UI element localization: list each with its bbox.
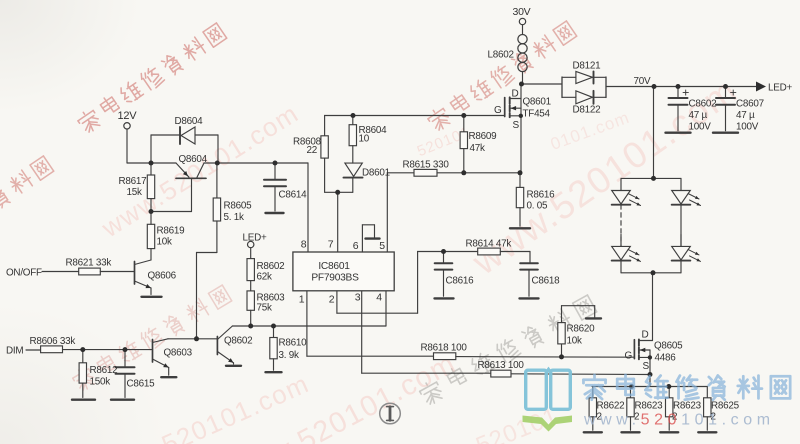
svg-text:520101: 520101 xyxy=(472,402,562,444)
svg-text:8: 8 xyxy=(301,239,307,251)
svg-text:D8121: D8121 xyxy=(573,61,602,72)
svg-text:R8615 330: R8615 330 xyxy=(403,160,450,171)
svg-text:L8602: L8602 xyxy=(488,50,514,61)
svg-text:75k: 75k xyxy=(257,303,272,314)
svg-text:R8618 100: R8618 100 xyxy=(421,343,468,354)
svg-text:Q8602: Q8602 xyxy=(224,336,252,347)
svg-text:R8620: R8620 xyxy=(567,324,596,335)
svg-text:IC8601: IC8601 xyxy=(318,261,350,272)
svg-text:G: G xyxy=(494,105,502,116)
svg-text:R8619: R8619 xyxy=(157,226,186,237)
svg-text:100V: 100V xyxy=(689,122,712,133)
svg-text:22: 22 xyxy=(307,145,317,156)
svg-text:R8623: R8623 xyxy=(635,401,664,412)
svg-text:R8605: R8605 xyxy=(224,201,253,212)
svg-text:Q8606: Q8606 xyxy=(148,271,177,282)
svg-text:C8618: C8618 xyxy=(532,276,561,287)
svg-text:R8623: R8623 xyxy=(673,401,702,412)
svg-text:R8610: R8610 xyxy=(279,338,308,349)
svg-text:S: S xyxy=(513,120,520,131)
svg-text:3. 9k: 3. 9k xyxy=(279,350,299,361)
svg-text:30V: 30V xyxy=(513,6,531,18)
svg-text:LED+: LED+ xyxy=(768,83,792,94)
svg-text:S: S xyxy=(643,361,650,372)
svg-text:C8616: C8616 xyxy=(446,276,475,287)
svg-text:DIM: DIM xyxy=(6,346,23,357)
svg-text:D: D xyxy=(512,89,519,100)
svg-text:R8622: R8622 xyxy=(597,401,625,412)
svg-text:Q8605: Q8605 xyxy=(654,341,683,352)
svg-text:10k: 10k xyxy=(157,237,172,248)
svg-text:150k: 150k xyxy=(90,377,111,388)
svg-text:62k: 62k xyxy=(257,272,272,283)
svg-text:6: 6 xyxy=(353,240,359,252)
svg-text:12V: 12V xyxy=(118,110,138,122)
svg-text:D8122: D8122 xyxy=(573,105,601,116)
svg-text:3: 3 xyxy=(355,292,361,304)
svg-text:ON/OFF: ON/OFF xyxy=(6,268,42,279)
svg-text:47k: 47k xyxy=(470,143,485,154)
svg-text:4: 4 xyxy=(376,292,382,304)
svg-text:2: 2 xyxy=(329,294,335,306)
svg-text:5: 5 xyxy=(379,240,385,252)
svg-text:LED+: LED+ xyxy=(243,233,267,244)
svg-text:0. 05: 0. 05 xyxy=(527,201,548,212)
svg-text:G: G xyxy=(625,351,633,362)
svg-text:R8609: R8609 xyxy=(469,131,498,142)
svg-text:R8606 33k: R8606 33k xyxy=(30,336,76,347)
svg-text:D8601: D8601 xyxy=(362,168,391,179)
svg-text:R8613 100: R8613 100 xyxy=(478,360,525,371)
svg-text:C8615: C8615 xyxy=(127,379,156,390)
svg-text:C8607: C8607 xyxy=(736,99,764,110)
svg-text:1: 1 xyxy=(299,294,305,306)
svg-text:R8602: R8602 xyxy=(257,261,285,272)
svg-text:TF454: TF454 xyxy=(523,109,551,120)
svg-text:100V: 100V xyxy=(736,122,759,133)
svg-text:D: D xyxy=(642,330,649,341)
svg-text:C8614: C8614 xyxy=(279,190,308,201)
svg-text:Q8604: Q8604 xyxy=(179,154,208,165)
svg-text:15k: 15k xyxy=(127,187,142,198)
svg-text:Q8603: Q8603 xyxy=(164,348,193,359)
svg-text:10k: 10k xyxy=(567,336,582,347)
svg-text:47 µ: 47 µ xyxy=(689,110,708,121)
svg-text:R8614 47k: R8614 47k xyxy=(466,239,512,250)
svg-text:www.520101.com: www.520101.com xyxy=(583,412,775,429)
svg-text:R8616: R8616 xyxy=(527,190,556,201)
svg-text:R8617: R8617 xyxy=(119,176,147,187)
svg-text:Q8601: Q8601 xyxy=(523,97,552,108)
svg-text:5. 1k: 5. 1k xyxy=(224,212,244,223)
svg-text:4486: 4486 xyxy=(655,353,677,364)
svg-text:7: 7 xyxy=(328,239,334,251)
svg-text:R8621 33k: R8621 33k xyxy=(66,258,112,269)
svg-text:47 µ: 47 µ xyxy=(736,110,755,121)
svg-text:PF7903BS: PF7903BS xyxy=(311,273,359,284)
svg-text:D8604: D8604 xyxy=(175,116,204,127)
svg-text:70V: 70V xyxy=(634,76,651,87)
svg-text:C8602: C8602 xyxy=(689,99,717,110)
svg-text:R8612: R8612 xyxy=(90,365,118,376)
svg-text:10: 10 xyxy=(359,134,370,145)
svg-text:R8625: R8625 xyxy=(711,401,740,412)
